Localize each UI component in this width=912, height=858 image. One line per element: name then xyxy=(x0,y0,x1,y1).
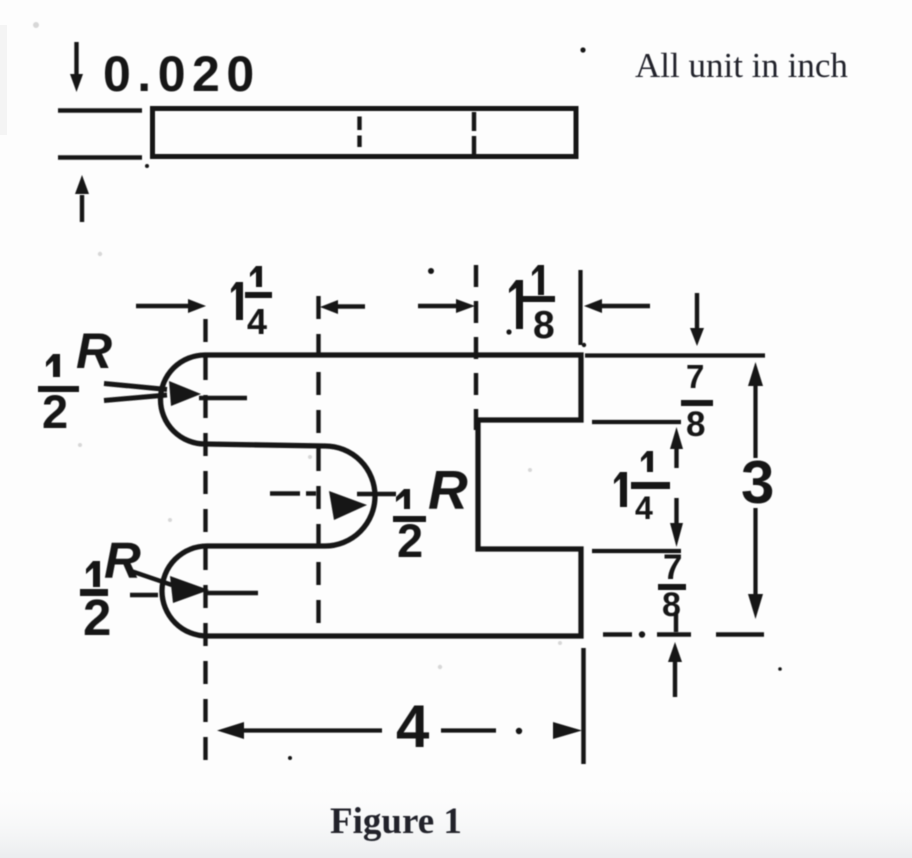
dim4 center dot xyxy=(516,728,522,734)
label 1-1/4 right: fraction bar xyxy=(631,482,670,489)
label 1-1/4 top: fraction bar xyxy=(245,292,272,298)
bottom ext dot xyxy=(639,631,645,637)
dim line 1-1/8 right arrow shaft xyxy=(596,304,650,308)
label 1/2 R bottom-left: numerator 1 xyxy=(86,561,100,587)
speck right lower xyxy=(778,667,782,671)
dim 1-1/4 right down-arrow shaft xyxy=(674,498,678,525)
faint scan specks xyxy=(33,22,562,669)
label 1/2 R top-left: fraction bar xyxy=(38,386,79,392)
dim 7/8 bottom short shaft xyxy=(674,614,678,632)
arrowhead 1-1/4 up xyxy=(670,427,683,449)
strip centerline mark 1 xyxy=(357,117,361,148)
arrowhead thickness up xyxy=(75,175,89,194)
label 7/8 lower: fraction bar xyxy=(658,584,686,590)
thickness extension line bottom xyxy=(58,155,142,160)
label 1-1/4 top: big 1 xyxy=(231,282,243,320)
arrowhead thickness down xyxy=(70,74,83,92)
right edge extension above top xyxy=(578,270,582,345)
speck under 1-1/8 tick xyxy=(582,343,586,347)
label 1/2 R top-left: numerator 1 xyxy=(46,354,60,377)
arrowhead 7/8 bottom up xyxy=(668,642,682,662)
speck near all-unit text xyxy=(580,47,585,52)
arrowhead dim4 left xyxy=(217,722,244,739)
svg-text:4: 4 xyxy=(396,693,430,760)
tongue centerline dashes xyxy=(270,491,316,495)
svg-text:0.020: 0.020 xyxy=(103,46,261,102)
label 1-1/8: fraction bar xyxy=(521,296,555,302)
svg-text:2: 2 xyxy=(42,385,68,438)
label 1-1/4 right: big 1 xyxy=(614,472,627,507)
leader bottom-left centerline dash xyxy=(130,593,158,597)
svg-text:All unit in inch: All unit in inch xyxy=(635,46,848,85)
speck above middle dim xyxy=(428,268,434,274)
centerline vertical right (x=476) xyxy=(474,265,478,430)
dim line mid-left arrow shaft xyxy=(336,304,365,308)
centerline vertical mid (x=318) xyxy=(316,296,320,630)
bottom edge dash-dot extension xyxy=(603,632,764,636)
svg-text:2: 2 xyxy=(83,589,111,646)
svg-text:7: 7 xyxy=(663,548,682,587)
top edge extension line right xyxy=(585,353,765,357)
dim 4 left arrow shaft xyxy=(240,728,382,732)
arrowhead leader middle xyxy=(329,491,367,520)
label 1-1/8: big 1 xyxy=(509,280,523,329)
side view strip outline xyxy=(153,109,577,157)
dim 3 line upper shaft xyxy=(753,381,757,458)
arrowhead dim-mid right (tip at x=474) xyxy=(456,299,475,313)
svg-text:4: 4 xyxy=(635,490,653,526)
dim 7/8 bottom up-arrow shaft xyxy=(673,660,677,697)
svg-text:7: 7 xyxy=(686,358,704,395)
svg-text:R: R xyxy=(104,532,141,589)
strip centerline mark 2 xyxy=(472,112,476,155)
leader lines top-left 1/2R xyxy=(104,384,167,401)
arrowhead dim3 down xyxy=(748,594,763,619)
arrowhead dim1 right (tip at x=205) xyxy=(188,299,206,313)
dim line 1-1/4 left arrow shaft xyxy=(136,304,190,308)
label 1-1/8: numerator 1 xyxy=(532,265,544,295)
dim 7/8 top arrow shaft xyxy=(695,293,699,330)
bottom dim right extension vertical xyxy=(581,648,586,764)
arrowhead dim 1-1/8 left-pointing (tip at x=584) xyxy=(584,299,602,313)
thickness dim arrow down xyxy=(74,42,78,76)
speck lower area xyxy=(288,756,292,760)
arrowhead dim3 up xyxy=(748,362,763,386)
leader tail top-left through arc xyxy=(199,396,247,400)
thickness dim arrow up xyxy=(80,195,84,222)
label 1/2 R middle: fraction bar xyxy=(393,516,426,522)
notch top extension line xyxy=(592,420,681,424)
label 1-1/4 top: numerator 1 xyxy=(250,266,262,287)
leader bottom-left sloped line xyxy=(128,570,172,585)
dim 1-1/4 right up-arrow shaft xyxy=(674,447,678,468)
svg-text:8: 8 xyxy=(662,586,681,624)
arrowhead leader top-left xyxy=(169,381,201,406)
svg-text:Figure 1: Figure 1 xyxy=(330,801,462,842)
svg-text:2: 2 xyxy=(397,514,423,567)
dim 3 line lower shaft xyxy=(753,508,757,598)
tongue leader tick xyxy=(357,492,396,496)
svg-text:3: 3 xyxy=(741,449,774,516)
speck below strip xyxy=(145,164,149,168)
svg-text:R: R xyxy=(428,459,468,521)
dim 4 dash xyxy=(441,728,496,732)
svg-text:8: 8 xyxy=(686,405,705,444)
label 1/2 R middle: numerator 1 xyxy=(396,489,410,509)
svg-text:4: 4 xyxy=(247,301,267,342)
label 1-1/4 right: numerator 1 xyxy=(641,451,653,472)
part outline xyxy=(161,355,582,636)
arrowhead dim-mid left (tip at x=320) xyxy=(320,300,338,314)
label 1/2 R bottom-left: fraction bar xyxy=(80,589,108,596)
svg-text:8: 8 xyxy=(533,304,555,347)
arrowhead leader bottom-left xyxy=(170,576,209,603)
arrowhead 1-1/4 down xyxy=(670,523,683,547)
arrowhead 7/8 top down xyxy=(690,328,704,346)
centerline vertical left (x=205) xyxy=(203,319,207,766)
dim line mid-right arrow shaft xyxy=(418,304,462,308)
arrowhead dim4 right xyxy=(553,722,582,739)
thickness extension line top xyxy=(58,108,142,113)
leader bottom-left tail xyxy=(205,591,258,595)
notch bottom extension line xyxy=(592,549,681,553)
svg-text:R: R xyxy=(76,323,112,379)
label 7/8 upper: fraction bar xyxy=(681,400,713,406)
speck under 1-1/8 big one xyxy=(506,329,511,334)
